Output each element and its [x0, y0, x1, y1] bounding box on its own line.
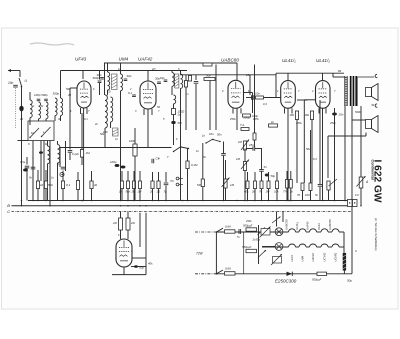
svg-text:UL41/₂: UL41/₂: [316, 58, 330, 63]
svg-text:50µ: 50µ: [139, 265, 144, 269]
svg-text:K: K: [28, 142, 30, 146]
svg-text:30p: 30p: [97, 73, 102, 77]
svg-text:UCY42: UCY42: [323, 252, 327, 261]
svg-text:0,3: 0,3: [263, 102, 267, 106]
svg-text:72W: 72W: [196, 252, 204, 256]
svg-text:5n: 5n: [315, 193, 319, 197]
svg-text:10p: 10p: [160, 76, 165, 80]
svg-text:TA: TA: [170, 179, 174, 183]
svg-text:0,1µF: 0,1µF: [72, 152, 79, 156]
svg-text:1n: 1n: [186, 92, 189, 96]
svg-text:0,1: 0,1: [57, 162, 62, 166]
svg-text:7µ: 7µ: [164, 190, 168, 194]
svg-text:50v: 50v: [306, 147, 311, 151]
svg-text:C₴: C₴: [156, 157, 160, 161]
svg-text:UAF42: UAF42: [138, 57, 153, 62]
svg-text:40k: 40k: [244, 190, 249, 194]
svg-text:40k: 40k: [148, 262, 153, 266]
svg-text:1M: 1M: [266, 190, 271, 194]
svg-text:2k: 2k: [39, 183, 44, 187]
svg-text:0,1M: 0,1M: [191, 163, 198, 167]
svg-text:5n: 5n: [264, 165, 268, 169]
svg-text:T.A.: T.A.: [240, 123, 245, 127]
svg-text:I 622 GW: I 622 GW: [371, 160, 382, 203]
svg-text:1M: 1M: [236, 157, 241, 161]
svg-text:300p: 300p: [53, 92, 60, 96]
svg-text:500µµF: 500µµF: [312, 278, 322, 282]
svg-text:50n: 50n: [217, 133, 222, 137]
svg-text:UF43: UF43: [317, 223, 321, 230]
svg-text:6,3: 6,3: [313, 157, 317, 161]
svg-text:UABC80: UABC80: [221, 58, 239, 63]
svg-text:1n: 1n: [51, 176, 54, 180]
svg-text:1M: 1M: [230, 183, 235, 187]
svg-text:0,6A: 0,6A: [225, 267, 231, 271]
svg-text:1M: 1M: [238, 140, 243, 144]
svg-text:1n: 1n: [115, 137, 118, 141]
svg-text:50µ: 50µ: [347, 279, 352, 283]
svg-text:2n: 2n: [94, 122, 98, 126]
svg-text:3k: 3k: [94, 183, 98, 187]
svg-text:UL41: UL41: [290, 255, 294, 262]
svg-text:1n: 1n: [202, 134, 206, 138]
svg-text:50k: 50k: [206, 74, 211, 78]
svg-text:1n: 1n: [196, 149, 199, 153]
svg-text:2Ω: 2Ω: [130, 221, 136, 225]
svg-text:30p: 30p: [127, 74, 132, 78]
svg-text:A: A: [365, 180, 368, 184]
svg-text:KD: KD: [107, 90, 111, 94]
svg-text:250v: 250v: [295, 121, 302, 125]
svg-text:50µ: 50µ: [271, 174, 276, 178]
svg-text:UL41/₁: UL41/₁: [295, 222, 299, 230]
svg-text:2Ω: 2Ω: [112, 221, 118, 225]
svg-text:UAF42: UAF42: [306, 221, 310, 230]
svg-text:B: B: [7, 203, 10, 208]
svg-text:30: 30: [68, 93, 71, 97]
svg-text:F F: F F: [355, 193, 359, 197]
svg-text:7n: 7n: [237, 235, 241, 239]
svg-text:C: C: [7, 209, 10, 214]
svg-text:100: 100: [103, 130, 108, 134]
svg-text:70: 70: [297, 193, 301, 197]
svg-text:500µµF: 500µµF: [242, 245, 252, 249]
svg-text:100µ: 100µ: [110, 160, 117, 164]
svg-text:0,1: 0,1: [128, 91, 132, 95]
svg-text:5n: 5n: [29, 176, 32, 180]
svg-text:2x50µ: 2x50µ: [252, 238, 261, 242]
svg-text:UF43: UF43: [75, 57, 87, 62]
svg-text:5M: 5M: [197, 183, 202, 187]
svg-text:UCH81: UCH81: [334, 252, 338, 261]
svg-text:50n: 50n: [48, 183, 53, 187]
svg-text:UM4: UM4: [119, 57, 129, 62]
svg-text:25n: 25n: [248, 143, 254, 147]
svg-text:U: U: [355, 249, 357, 253]
svg-text:100p 500p: 100p 500p: [34, 93, 48, 97]
svg-text:250v: 250v: [229, 117, 236, 121]
svg-text:5000: 5000: [355, 110, 361, 114]
svg-text:50: 50: [157, 105, 160, 109]
svg-text:105v: 105v: [253, 117, 259, 121]
svg-text:UM4: UM4: [301, 255, 305, 261]
svg-text:2k: 2k: [289, 190, 294, 194]
svg-text:1M: 1M: [86, 151, 91, 155]
svg-text:10n: 10n: [8, 81, 14, 85]
svg-text:0,1: 0,1: [66, 183, 71, 187]
svg-text:E250C300: E250C300: [275, 279, 297, 284]
svg-text:0,1: 0,1: [84, 117, 88, 121]
svg-text:20n: 20n: [338, 113, 344, 117]
svg-text:UABC80: UABC80: [328, 219, 332, 230]
svg-text:5n: 5n: [203, 155, 206, 159]
svg-text:0,5µ: 0,5µ: [20, 160, 26, 164]
svg-text:500: 500: [66, 87, 71, 91]
svg-text:10n: 10n: [209, 132, 214, 136]
svg-text:0,6A: 0,6A: [225, 225, 231, 229]
svg-text:250v: 250v: [245, 219, 252, 223]
svg-text:160: 160: [290, 113, 295, 117]
svg-text:20: 20: [19, 117, 23, 121]
svg-text:100: 100: [305, 193, 310, 197]
svg-text:UL41/₁: UL41/₁: [282, 58, 296, 63]
svg-text:(2. Teil des Schaltbildes): (2. Teil des Schaltbildes): [374, 218, 378, 250]
svg-text:2Q: 2Q: [151, 67, 155, 71]
svg-text:B4: B4: [338, 69, 342, 73]
svg-text:10n: 10n: [255, 92, 260, 96]
svg-text:250v: 250v: [329, 121, 336, 125]
svg-text:30: 30: [58, 117, 61, 121]
svg-text:500µµF: 500µµF: [243, 224, 253, 228]
svg-text:160: 160: [305, 113, 310, 117]
svg-text:UABC80: UABC80: [285, 219, 289, 230]
svg-text:UAF42: UAF42: [311, 253, 315, 262]
svg-text:10n: 10n: [246, 73, 251, 77]
